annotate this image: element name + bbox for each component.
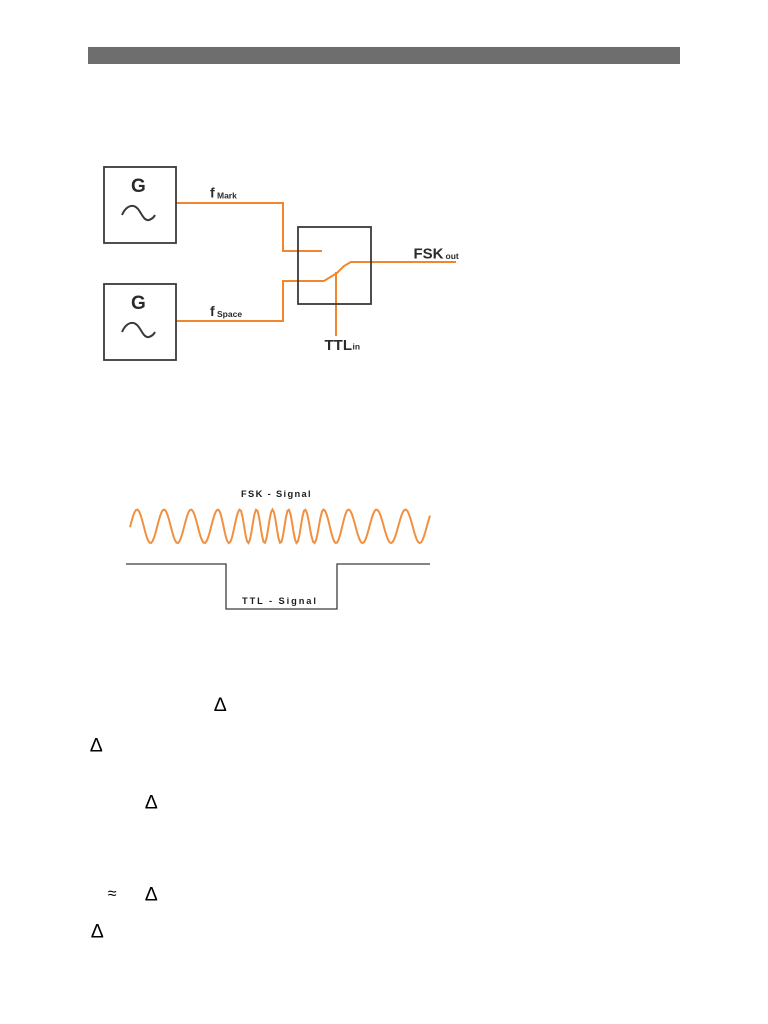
svg-text:G: G [131,293,146,314]
svg-text:≈: ≈ [108,886,117,903]
svg-text:G: G [131,176,146,197]
svg-text:Δ: Δ [91,921,104,943]
svg-text:f: f [210,185,215,201]
svg-text:f: f [210,303,215,319]
svg-text:Δ: Δ [214,694,227,716]
svg-text:TTL - Signal: TTL - Signal [242,596,318,606]
svg-text:Δ: Δ [90,734,103,756]
svg-text:out: out [446,251,459,261]
svg-text:in: in [353,341,361,351]
svg-text:Mark: Mark [217,191,237,201]
svg-text:Space: Space [217,309,242,319]
svg-text:Δ: Δ [145,884,158,906]
svg-text:Δ: Δ [145,791,158,813]
svg-text:FSK - Signal: FSK - Signal [241,489,312,499]
svg-text:FSK: FSK [414,246,444,263]
svg-text:TTL: TTL [325,337,353,354]
